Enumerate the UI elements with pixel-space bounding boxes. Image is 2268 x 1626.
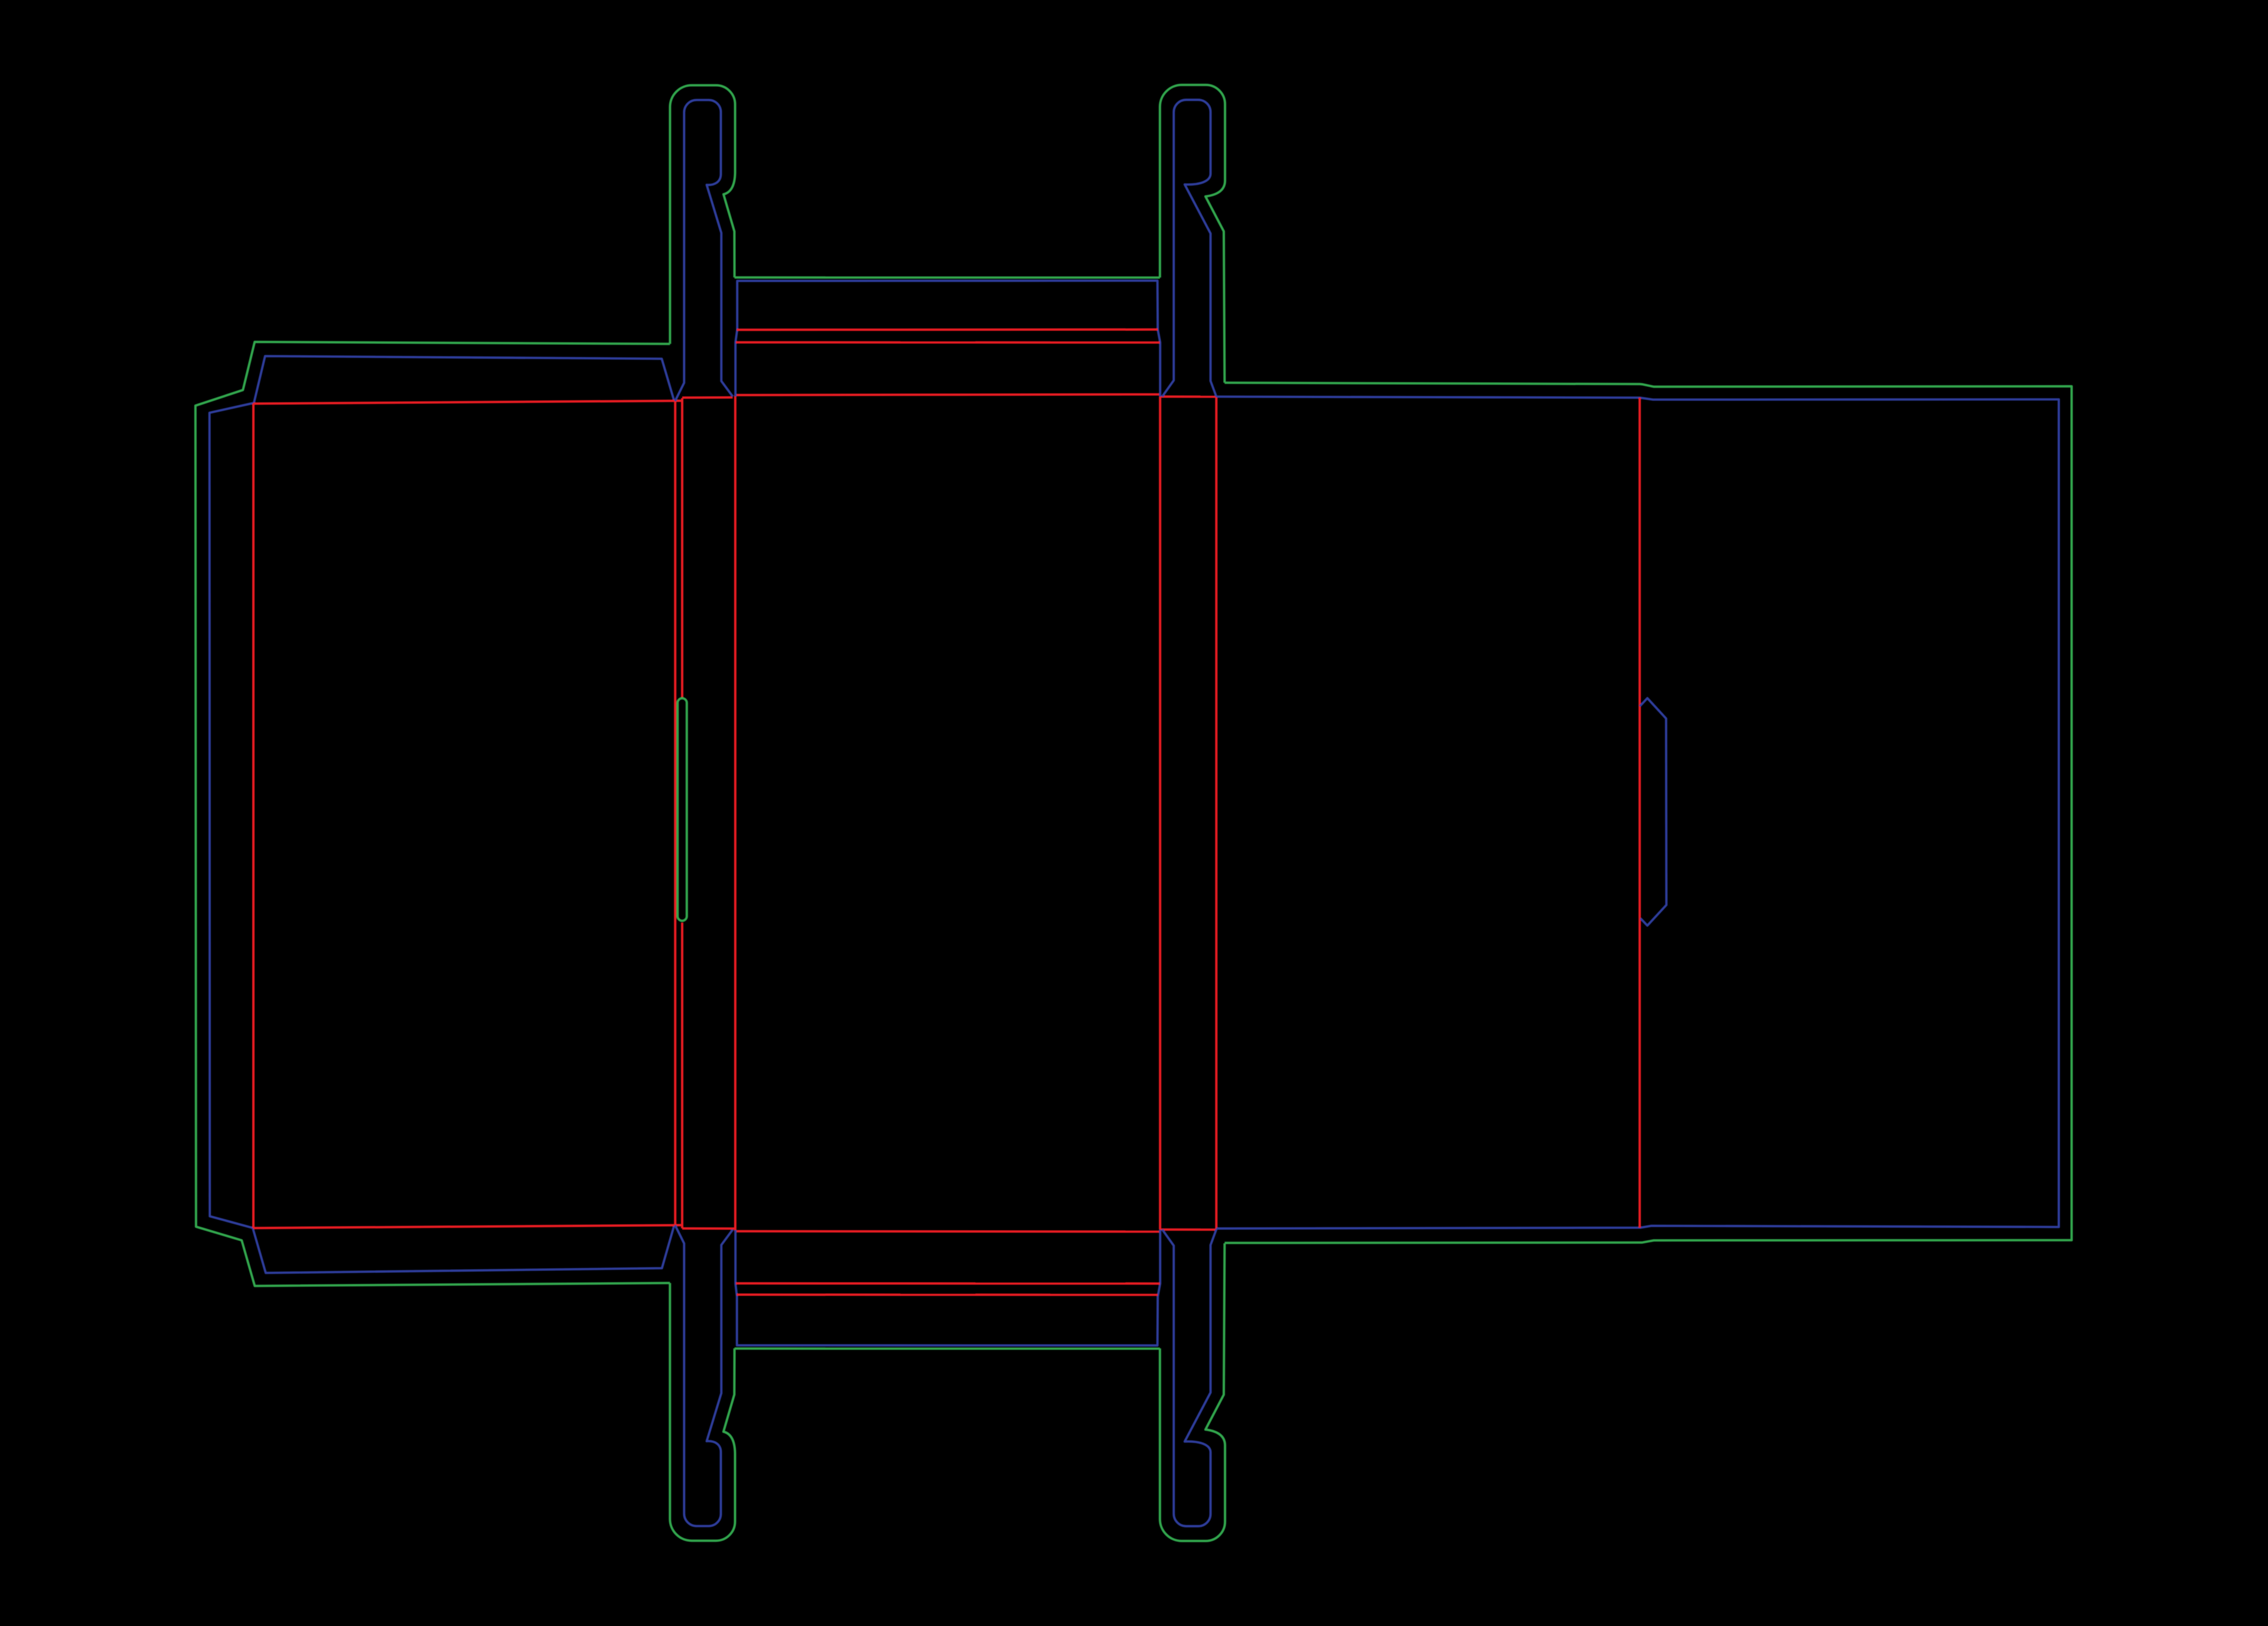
top tuck band inner cut (blue) with end verticals — [735, 281, 1160, 396]
top-left dust flap outer cut (green) with lock hook — [670, 85, 735, 344]
crease: relief strip right upper segment (red vertical x=1155) — [681, 398, 683, 699]
crease: left side-wall top fold (red) — [682, 396, 733, 399]
crease: panel-3 / panel-4 fold (red vertical x=2776) — [1638, 397, 1641, 1227]
top-right dust flap outer cut (green) with lock hook — [1160, 85, 1225, 383]
top tuck band outer cut (green) — [735, 276, 1160, 279]
crease: top band fold 1 (red) — [737, 328, 1158, 331]
panels 3-4 outer cut (green) top/right/bottom with step at fold — [1224, 383, 2071, 1243]
crease: bottom band fold 1 (red) — [737, 1293, 1158, 1296]
crease: bottom band fold 2 (red) — [736, 1282, 1160, 1285]
bottom tuck band outer cut (green) — [735, 1347, 1160, 1350]
crease: top band fold 2 (red) — [736, 341, 1160, 344]
crease: middle panel bottom fold (red) — [735, 1230, 1160, 1233]
top-left dust flap inner cut (blue) with lock hook — [675, 100, 733, 401]
bottom-right dust flap outer cut (green) with lock hook — [1160, 1243, 1225, 1541]
crease: panel-3 left fold (red vertical x=2059) — [1215, 397, 1217, 1230]
crease: left panel top fold (red) — [253, 401, 682, 404]
left lid panel outer cut (green) top/left/bottom — [195, 342, 670, 1286]
bottom tuck band inner cut (blue) with end verticals — [735, 1230, 1160, 1345]
left lid panel inner cut (blue) — [210, 356, 674, 1273]
lock slit cut (green stadium) on relief strip — [677, 698, 687, 921]
crease: right side-wall top fold (red) — [1160, 396, 1216, 398]
crease: middle panel top fold (red) — [735, 395, 1160, 395]
crease: left panel bottom fold (red) — [253, 1225, 682, 1228]
crease: left glue-flap fold (red vertical x=429) — [252, 403, 255, 1228]
thumb-notch cut (blue) on panel-4 fold — [1640, 698, 1666, 926]
crease: right side-wall bottom fold (red) — [1160, 1229, 1216, 1231]
bottom-left dust flap inner cut (blue) with lock hook — [675, 1225, 733, 1526]
bottom-right dust flap inner cut (blue) with lock hook — [1162, 1230, 1217, 1527]
crease: middle panel left fold (red vertical x=1245) — [734, 395, 737, 1231]
top-right dust flap inner cut (blue) with lock hook — [1162, 100, 1217, 397]
crease: middle panel right fold (red vertical x=1964) — [1159, 397, 1161, 1230]
crease: relief strip left (red vertical x=1143) — [674, 401, 676, 1225]
crease: left side-wall bottom fold (red) — [682, 1227, 734, 1230]
panels 3-4 inner cut (blue) top/right/bottom with step at fold — [1216, 397, 2058, 1229]
crease: relief strip right lower segment (red vertical x=1155) — [681, 923, 683, 1229]
bottom-left dust flap outer cut (green) with lock hook — [670, 1283, 735, 1540]
